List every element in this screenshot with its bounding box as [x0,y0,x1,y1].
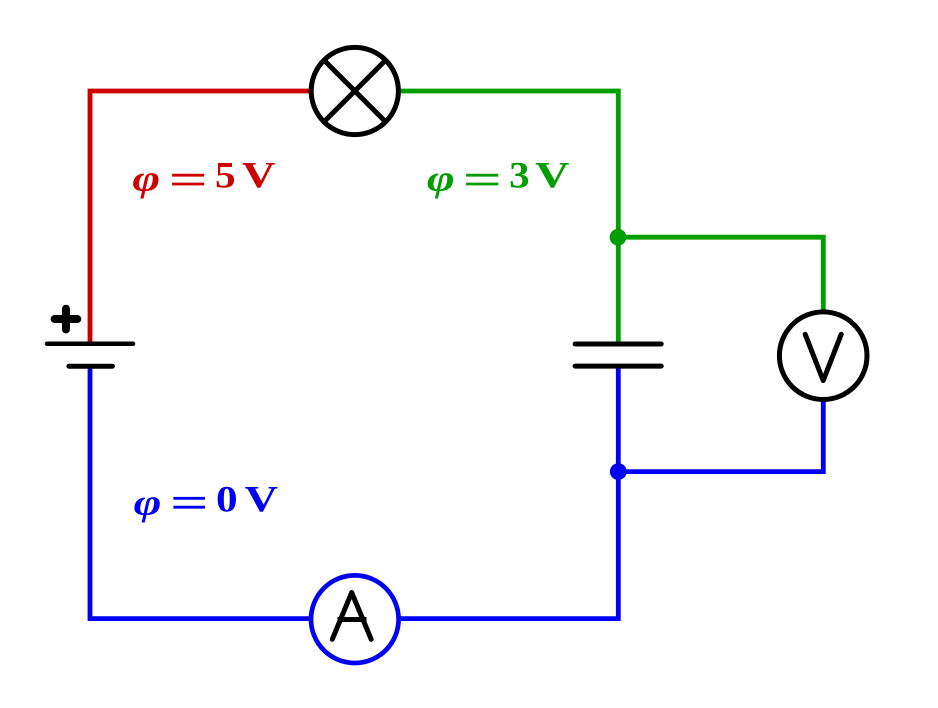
svg-text:φ: φ [132,159,160,200]
wire green: from lamp along top rail, down right rail to capacitor top plate [355,91,619,345]
wire blue: junction to voltmeter bottom [618,356,823,472]
wire red: from battery + plate up left rail, along top rail to lamp [90,91,355,345]
ammeter A [311,575,399,663]
battery B1 short plate (-) [69,364,113,369]
capacitor C1 bottom plate [575,364,661,369]
lamp L1 [311,47,398,134]
svg-text:5: 5 [215,156,236,197]
node green junction [610,229,627,246]
battery B1 long plate (+) [47,342,133,347]
battery plus sign [55,309,78,330]
node blue junction [610,463,627,480]
wire blue: capacitor bottom plate down, along bottom rail, up to battery - plate [90,365,618,619]
svg-text:φ: φ [427,159,455,200]
label phi=0V blue [134,479,279,523]
label phi=3V green [427,156,570,200]
svg-text:0: 0 [216,479,238,520]
capacitor C1 top plate [575,342,661,347]
svg-text:3: 3 [509,156,530,197]
svg-text:V: V [245,479,279,520]
label phi=5V red [132,156,275,200]
voltmeter V [779,312,867,400]
wire green: junction to voltmeter top [618,237,823,356]
svg-text:φ: φ [134,482,162,523]
svg-text:V: V [242,156,276,197]
svg-text:V: V [535,156,570,197]
